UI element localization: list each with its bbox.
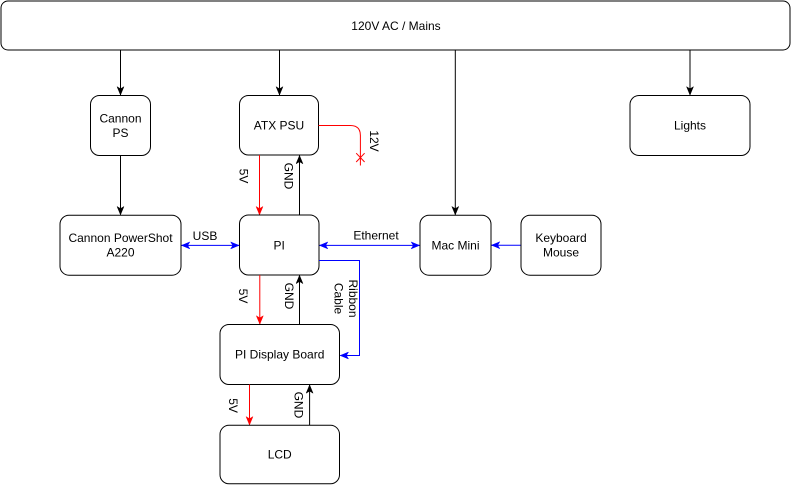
svg-text:Cannon: Cannon bbox=[99, 112, 141, 126]
block Mac Mini bbox=[420, 215, 491, 275]
svg-text:Lights: Lights bbox=[674, 119, 706, 133]
wire mains to Lights bbox=[689, 50, 691, 95]
svg-text:5V: 5V bbox=[226, 398, 240, 413]
block ATX PSU bbox=[240, 96, 319, 156]
svg-text:120V AC / Mains: 120V AC / Mains bbox=[351, 19, 440, 33]
svg-text:ATX PSU: ATX PSU bbox=[254, 118, 304, 132]
svg-text:GND: GND bbox=[291, 392, 305, 419]
wire GND LCD to PI Display Board bbox=[309, 385, 311, 425]
svg-text:5V: 5V bbox=[236, 169, 250, 184]
block LCD bbox=[220, 425, 340, 484]
svg-text:USB: USB bbox=[193, 229, 218, 243]
wire 5V PI Display Board to LCD (red) bbox=[249, 385, 251, 425]
svg-text:Ethernet: Ethernet bbox=[353, 229, 399, 243]
svg-text:GND: GND bbox=[282, 283, 296, 310]
svg-text:Mouse: Mouse bbox=[543, 246, 579, 260]
wire 5V PI to PI Display Board (red) bbox=[259, 275, 261, 324]
block Cannon PS bbox=[91, 96, 151, 156]
svg-text:PS: PS bbox=[112, 126, 128, 140]
block PI bbox=[240, 215, 320, 275]
wire 5V ATX PSU to PI (red) bbox=[259, 155, 261, 215]
block PI Display Board bbox=[220, 325, 340, 385]
wire mains to Mac Mini bbox=[454, 50, 456, 215]
block Cannon PowerShot A220 bbox=[60, 215, 181, 275]
svg-text:PI Display Board: PI Display Board bbox=[235, 348, 324, 362]
svg-text:Keyboard: Keyboard bbox=[535, 231, 586, 245]
wire mains to ATX PSU bbox=[279, 50, 281, 95]
svg-text:5V: 5V bbox=[236, 289, 250, 304]
wire GND PI Display Board to PI bbox=[299, 275, 301, 324]
svg-text:LCD: LCD bbox=[268, 448, 292, 462]
wire Ethernet (blue, both arrows) bbox=[320, 244, 420, 246]
wire GND PI to ATX PSU bbox=[299, 156, 301, 216]
wire 12V from ATX PSU with X end bbox=[319, 126, 365, 166]
svg-text:12V: 12V bbox=[367, 130, 381, 151]
svg-text:Cannon PowerShot: Cannon PowerShot bbox=[68, 231, 173, 245]
block Keyboard Mouse bbox=[521, 215, 601, 275]
svg-text:RibbonCable: RibbonCable bbox=[332, 279, 360, 317]
block Lights bbox=[630, 96, 750, 156]
svg-text:PI: PI bbox=[274, 238, 285, 252]
svg-text:A220: A220 bbox=[106, 246, 134, 260]
wire Ribbon Cable PI to PI Display Board (blue) bbox=[319, 261, 360, 356]
svg-text:Mac Mini: Mac Mini bbox=[431, 238, 479, 252]
block 120V AC / Mains bbox=[1, 1, 790, 50]
wire USB (blue, both arrows) bbox=[182, 244, 240, 246]
wire mains to Cannon PS bbox=[120, 50, 122, 95]
wire Cannon PS to Cannon PowerShot bbox=[120, 156, 122, 215]
svg-text:GND: GND bbox=[281, 163, 295, 190]
wire Keyboard Mouse to Mac Mini (blue) bbox=[492, 244, 522, 246]
